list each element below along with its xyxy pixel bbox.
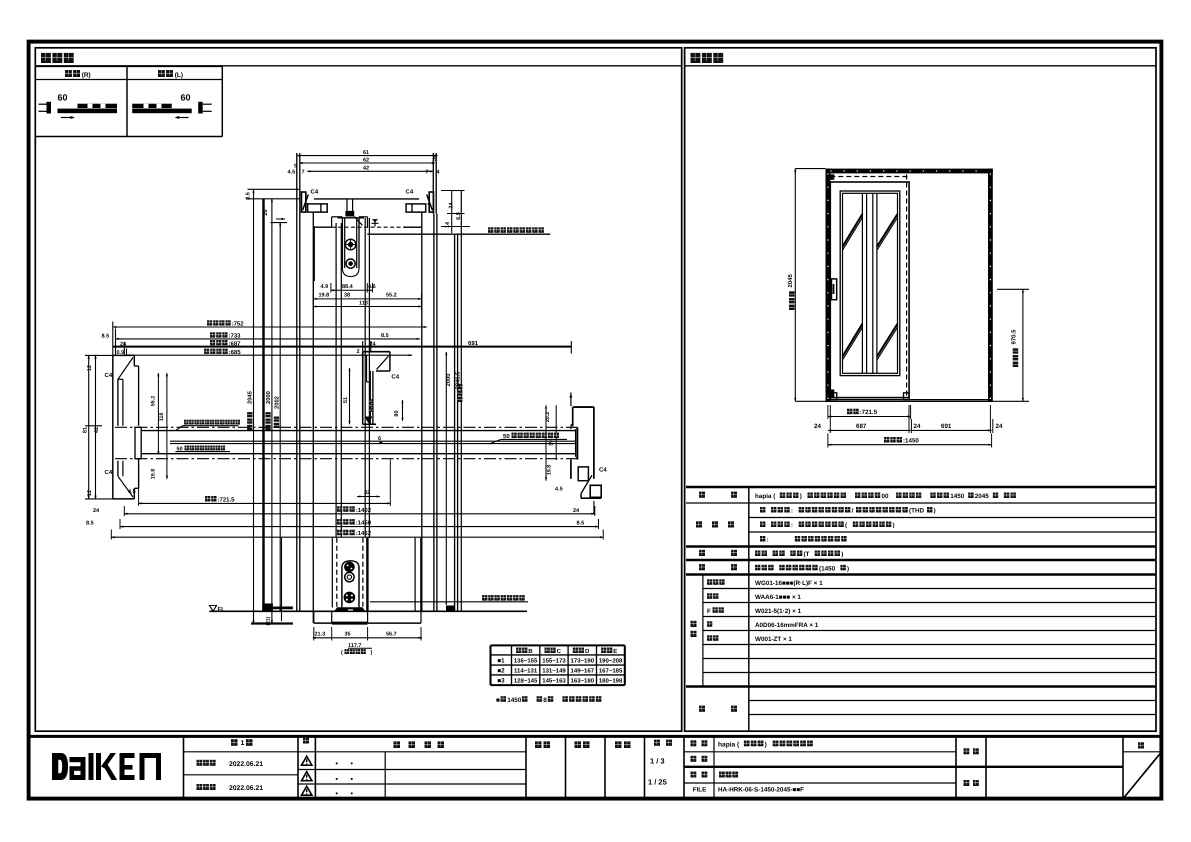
svg-text:F: F [707,608,711,615]
svg-text:21.3: 21.3 [315,632,326,638]
svg-text:12: 12 [87,490,93,496]
svg-text:2000: 2000 [445,374,452,387]
svg-text:20.2: 20.2 [545,412,551,422]
svg-text:C4: C4 [406,189,414,196]
svg-text:7: 7 [426,170,429,176]
svg-text:HA-HRK-06-S-1450-2045-■■F: HA-HRK-06-S-1450-2045-■■F [718,787,804,794]
svg-text:hapia (: hapia ( [755,493,776,500]
svg-text:C4: C4 [105,372,113,379]
svg-text::: : [791,522,793,529]
svg-text:128~145: 128~145 [514,677,538,684]
svg-text:155~173: 155~173 [542,657,566,664]
svg-text:24: 24 [996,423,1003,430]
svg-text::752: :752 [232,321,245,328]
svg-text:2045: 2045 [247,390,254,404]
svg-text:): ) [847,565,849,572]
svg-text:35: 35 [345,632,351,638]
svg-text:8.5: 8.5 [577,521,585,527]
svg-text:(T: (T [804,551,810,558]
svg-text:149~167: 149~167 [571,668,595,675]
svg-text::687: :687 [229,340,242,347]
svg-text:5: 5 [434,157,437,163]
svg-text:4.6: 4.6 [368,284,376,290]
svg-text:55.2: 55.2 [151,396,157,406]
svg-text:61: 61 [363,150,369,156]
svg-text:56.7: 56.7 [386,632,397,638]
svg-text:190~208: 190~208 [599,657,623,664]
svg-text:■2: ■2 [497,668,505,675]
svg-text:2045: 2045 [975,493,990,500]
svg-text::1402: :1402 [356,507,372,514]
svg-text:(R): (R) [82,72,91,79]
svg-text:4.5: 4.5 [288,170,296,176]
svg-text:■3: ■3 [497,677,505,684]
svg-text:173~190: 173~190 [571,657,595,664]
svg-text:19.8: 19.8 [151,469,157,479]
svg-text:(1450: (1450 [819,565,836,572]
svg-text:(21): (21) [266,616,272,625]
svg-text:88.4: 88.4 [342,284,354,290]
svg-text:(L): (L) [175,72,183,79]
svg-text:7: 7 [302,170,305,176]
svg-text:W001-ZT × 1: W001-ZT × 1 [755,636,792,643]
svg-text:8.5: 8.5 [246,192,252,200]
svg-text:51: 51 [343,397,349,403]
svg-text:FILE: FILE [693,787,706,794]
svg-text:): ) [934,508,936,515]
svg-text:W021-5(1·2) × 1: W021-5(1·2) × 1 [755,608,802,615]
svg-text:167~185: 167~185 [599,668,623,675]
svg-text:55.2: 55.2 [386,293,397,299]
svg-text:B: B [528,648,533,655]
svg-text:24: 24 [914,423,921,430]
svg-text:6: 6 [378,436,381,442]
svg-text:1 / 25: 1 / 25 [648,778,667,787]
svg-text:970.5: 970.5 [1011,329,1018,345]
svg-text::: : [767,537,769,544]
svg-text:19.8: 19.8 [547,465,553,475]
svg-text:C: C [557,648,562,655]
svg-text:WAA6-1■■■ × 1: WAA6-1■■■ × 1 [755,594,801,601]
svg-text:118: 118 [159,413,165,422]
svg-text:2002: 2002 [273,396,280,409]
svg-text:8.5: 8.5 [86,521,94,527]
svg-text:2022.06.21: 2022.06.21 [229,785,263,792]
svg-text:/: / [852,508,854,515]
svg-text:60: 60 [181,93,191,103]
svg-text:163~180: 163~180 [571,677,595,684]
svg-text:691: 691 [941,423,952,430]
svg-text:2: 2 [357,349,360,355]
svg-text:8.5: 8.5 [102,334,110,340]
svg-text:hapia (: hapia ( [718,741,740,748]
svg-text:WG01-16■■■(R·L)F × 1: WG01-16■■■(R·L)F × 1 [755,580,823,587]
svg-text:32: 32 [364,490,370,496]
svg-text:2045: 2045 [787,273,794,287]
svg-text::1450: :1450 [356,520,372,527]
svg-text:12: 12 [87,365,93,371]
svg-text:8: 8 [543,697,547,704]
svg-text:00: 00 [882,493,890,500]
svg-text:2041.5: 2041.5 [455,371,462,390]
svg-text:): ) [800,493,802,500]
svg-text:38: 38 [344,293,350,299]
svg-text:180~198: 180~198 [599,677,623,684]
svg-text:60: 60 [58,93,68,103]
svg-text::1450: :1450 [903,438,919,445]
svg-text:131~149: 131~149 [542,668,566,675]
svg-text:1: 1 [241,740,245,747]
svg-text:FL: FL [218,606,226,613]
svg-text:C4: C4 [105,469,113,476]
svg-text:136~155: 136~155 [514,657,538,664]
svg-text::: : [791,508,793,515]
svg-text:114~131: 114~131 [514,668,538,675]
svg-text:4.9: 4.9 [321,284,329,290]
svg-text:42: 42 [363,166,369,172]
svg-text:19.8: 19.8 [319,293,330,299]
svg-text:4.5: 4.5 [128,489,136,495]
svg-text:■: ■ [496,697,500,704]
svg-text:(THD: (THD [909,508,924,515]
svg-text:2022.06.21: 2022.06.21 [229,761,263,768]
svg-text:D: D [585,648,590,655]
svg-text:(: ( [341,650,343,656]
svg-text:1 / 3: 1 / 3 [650,757,665,766]
svg-text:80: 80 [394,410,400,416]
svg-text::1462: :1462 [356,530,372,537]
svg-text:687: 687 [856,423,867,430]
svg-text:24: 24 [814,423,821,430]
svg-text::685: :685 [229,349,242,356]
svg-text:81: 81 [83,427,89,433]
svg-text:): ) [765,741,767,748]
svg-text:■1: ■1 [497,657,505,664]
svg-text:): ) [371,650,373,656]
svg-text:62: 62 [363,157,369,163]
svg-text:24: 24 [120,341,127,347]
svg-text:42: 42 [94,427,100,433]
svg-text:20: 20 [263,209,269,215]
svg-text:C4: C4 [311,189,319,196]
svg-text:1450: 1450 [507,697,522,704]
svg-text::721.5: :721.5 [860,409,878,416]
svg-text:4.5: 4.5 [555,487,563,493]
svg-text:): ) [841,551,843,558]
svg-text:145~163: 145~163 [542,677,566,684]
svg-text:24: 24 [93,508,100,514]
svg-text:1450: 1450 [950,493,965,500]
svg-text:24: 24 [573,508,580,514]
svg-text:24: 24 [449,202,455,209]
svg-text:C4: C4 [599,467,607,474]
svg-text:): ) [893,522,895,529]
svg-text:2000: 2000 [265,391,272,404]
svg-text::721.5: :721.5 [218,497,236,504]
svg-text:113: 113 [359,301,368,307]
svg-text:E: E [613,648,617,655]
svg-text:A0D06-16mmFRA × 1: A0D06-16mmFRA × 1 [755,622,819,629]
svg-text:8.5: 8.5 [381,333,389,339]
svg-text:C4: C4 [391,374,399,381]
svg-text::733: :733 [229,333,242,340]
svg-text:14: 14 [445,221,451,228]
